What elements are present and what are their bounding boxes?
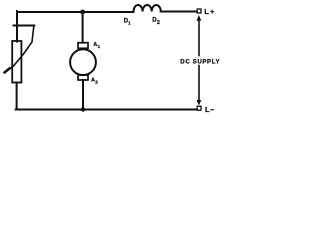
wire top right segment [161, 11, 197, 13]
wire bottom rail [16, 109, 197, 111]
supply vertical wire lower [198, 66, 200, 102]
svg-text:DC SUPPLY: DC SUPPLY [180, 58, 220, 65]
junction node bottom (armature/bottom rail) [81, 107, 85, 111]
terminal L- (open square) [197, 106, 201, 110]
svg-text:A2: A2 [91, 77, 98, 85]
svg-text:D2: D2 [152, 16, 160, 26]
series field winding D1-D2 (inductor coil) [134, 5, 161, 12]
svg-text:L+: L+ [204, 7, 215, 16]
brush bottom of armature [78, 75, 88, 80]
wire top left segment [17, 11, 134, 13]
variable resistor body (box) [12, 41, 21, 83]
svg-text:D1: D1 [124, 18, 131, 25]
armature circle [70, 49, 96, 75]
rheostat wiper diagonal arm [5, 26, 34, 72]
wire armature branch lower [82, 80, 84, 110]
supply vertical wire upper [198, 20, 200, 56]
wire left vertical (lower stub to bottom rail) [16, 83, 18, 110]
supply arrow down toward L- [197, 100, 202, 106]
brush top of armature [78, 43, 88, 49]
terminal L+ (open square) [197, 9, 201, 13]
svg-text:L–: L– [205, 105, 215, 114]
rheostat wiper tie bar [14, 25, 35, 27]
rheostat wiper arrow tip [5, 69, 10, 73]
wire left vertical (upper) [16, 11, 18, 42]
wire armature branch upper [82, 11, 84, 43]
svg-text:A1: A1 [93, 42, 100, 49]
supply arrow up toward L+ [197, 15, 202, 21]
junction node top (field/armature) [80, 10, 85, 15]
